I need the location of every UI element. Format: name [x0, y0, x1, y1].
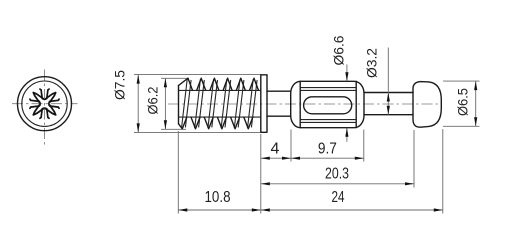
dimension 9.7: [291, 157, 364, 159]
cam right tangent line: [355, 81, 357, 127]
thread top crest profile: [179, 78, 259, 90]
dimension Ø3.2 line: [387, 48, 389, 115]
extension line at cam left: [290, 130, 292, 162]
extension line at cap right: [442, 129, 444, 214]
cam body outline: [291, 81, 364, 127]
dimension 4: [261, 157, 291, 159]
end view vertical centerline: [44, 70, 46, 147]
dimension 20.3: [261, 183, 414, 185]
extension line at cam right: [363, 130, 365, 162]
extension line at thread start: [177, 131, 179, 214]
dimension 24: [261, 209, 443, 211]
side view centerline: [168, 103, 442, 105]
dimension Ø6.2 line: [164, 78, 166, 129]
flange: [261, 75, 267, 133]
svg-text:10.8: 10.8: [205, 189, 231, 206]
svg-text:24: 24: [332, 189, 345, 206]
end view outer circle (flange Ø7.5): [18, 77, 72, 131]
svg-text:Ø3.2: Ø3.2: [365, 48, 380, 78]
svg-text:Ø6.6: Ø6.6: [331, 36, 346, 66]
dimension Ø6.6 upper leader: [346, 65, 348, 82]
dimension Ø6.5 extension lines: [443, 80, 480, 82]
cam slot: [304, 97, 352, 114]
shaft between flange and cam: [267, 90, 291, 92]
svg-text:20.3: 20.3: [325, 165, 349, 182]
thread left end face: [178, 86, 180, 124]
end view horizontal centerline: [12, 103, 78, 105]
svg-text:Ø7.5: Ø7.5: [112, 70, 127, 100]
dimension 10.8: [178, 209, 260, 211]
thread bottom crest profile: [179, 117, 253, 129]
pozidriv recess star: [30, 89, 59, 118]
svg-text:Ø6.5: Ø6.5: [456, 88, 471, 116]
svg-text:4: 4: [271, 141, 280, 158]
extension line at cap left: [413, 130, 415, 188]
dimension Ø7.5 extension lines: [134, 74, 261, 76]
cam groove lines: [300, 87, 356, 89]
svg-text:Ø6.2: Ø6.2: [146, 87, 161, 115]
cap Ø6.5: [413, 82, 441, 128]
cam left tangent line: [299, 81, 301, 127]
dimension Ø7.5 line: [137, 75, 139, 133]
thread root lines: [179, 89, 261, 91]
end view inner circle (thread Ø6.2): [22, 81, 67, 126]
svg-text:9.7: 9.7: [318, 140, 337, 157]
shaft Ø3.2: [364, 92, 413, 94]
thread helix flank lines: [182, 79, 188, 128]
dimension Ø6.2 extension lines: [161, 77, 189, 79]
dimension Ø6.6 lower leader: [346, 128, 348, 142]
dimension Ø6.5 line: [475, 81, 477, 126]
extension line at flange: [260, 134, 262, 214]
